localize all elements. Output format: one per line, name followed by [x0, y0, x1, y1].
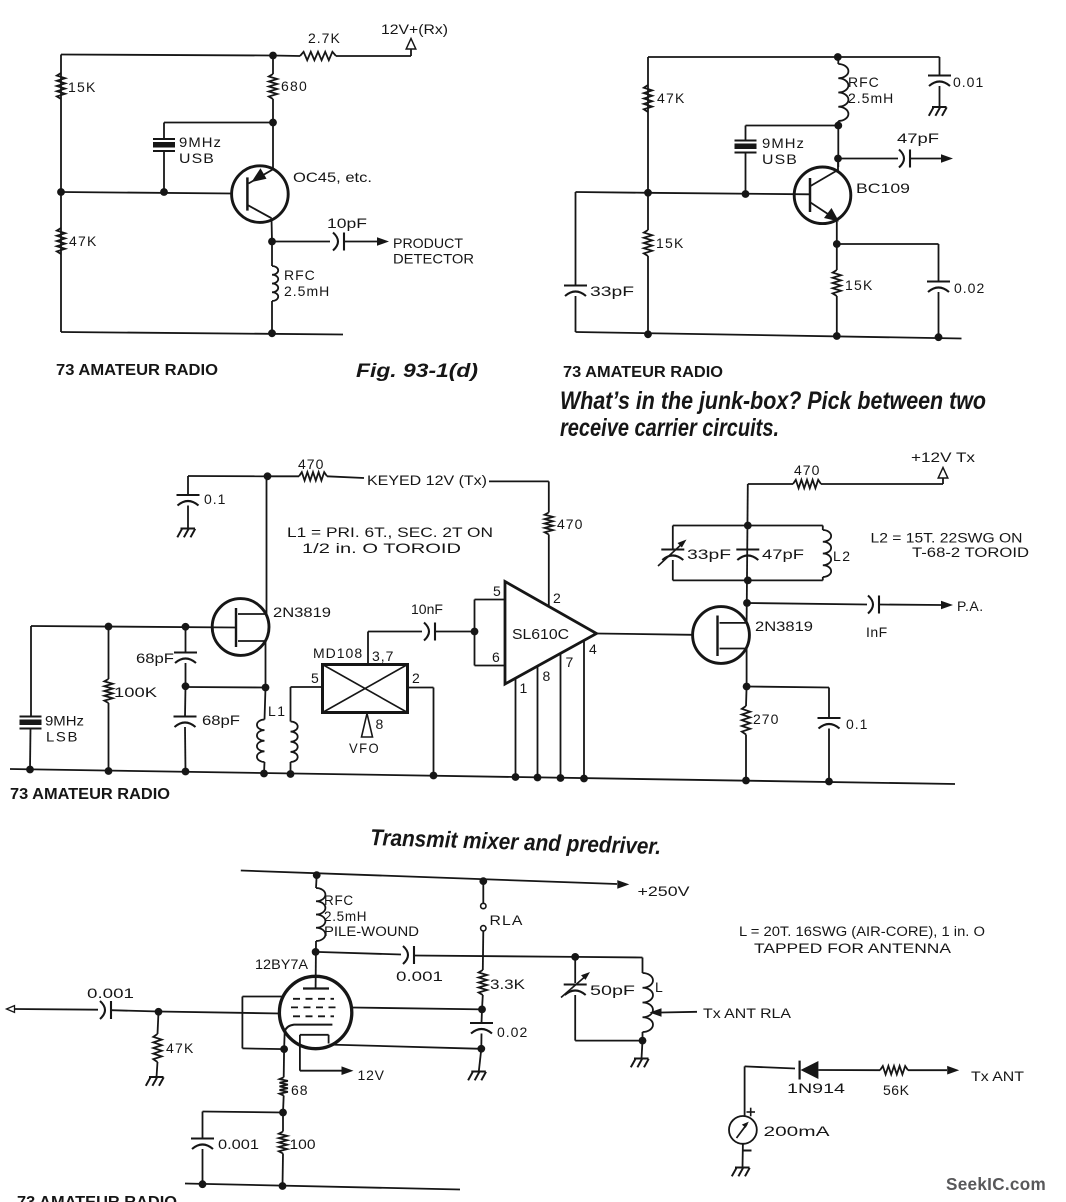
node cathode junction [280, 1045, 288, 1053]
node source junction 2 [743, 683, 751, 691]
svg-text:2: 2 [412, 670, 421, 686]
capacitor 0.001 (plate coupling) [403, 946, 408, 964]
wire [271, 242, 273, 267]
wire [315, 875, 318, 888]
input bracket pins 5-6 [474, 600, 476, 666]
wire tank top [673, 525, 823, 527]
wire [265, 641, 267, 688]
svg-text:PRODUCT: PRODUCT [393, 235, 463, 251]
node L1 primary bus junction [260, 770, 268, 778]
svg-text:RFC: RFC [324, 893, 354, 908]
svg-text:L2: L2 [833, 548, 852, 564]
resistor 15K (emitter) [833, 270, 841, 296]
wire [836, 244, 838, 270]
wire [367, 632, 369, 665]
wire [818, 1069, 880, 1071]
wire [747, 484, 748, 623]
wire pin8 [537, 666, 539, 777]
wire [745, 687, 748, 707]
wire [316, 952, 401, 955]
node gate junction 100K [105, 623, 113, 631]
node collector junction [834, 155, 842, 163]
power +12V Tx [938, 468, 948, 479]
wire pin2 MD108 [408, 687, 434, 689]
svg-text:73 AMATEUR RADIO: 73 AMATEUR RADIO [563, 364, 723, 381]
tube cathode [285, 1025, 333, 1032]
svg-text:0.01: 0.01 [953, 74, 984, 90]
wire [30, 626, 32, 717]
resistor 270 [742, 706, 750, 735]
svg-text:2N3819: 2N3819 [755, 618, 813, 634]
svg-text:47pF: 47pF [762, 546, 804, 562]
wire [414, 956, 575, 957]
capacitor 68pF lower [174, 715, 197, 717]
wire [111, 1010, 159, 1011]
node op-amp input junction [471, 628, 479, 636]
resistor 15K (bias) [644, 230, 652, 256]
wire [327, 476, 364, 478]
wire [164, 122, 273, 124]
arrow to product detector [377, 237, 389, 246]
svg-text:5: 5 [493, 583, 502, 599]
svg-text:200mA: 200mA [764, 1123, 831, 1139]
svg-text:MD108: MD108 [313, 645, 363, 661]
svg-text:100: 100 [290, 1136, 316, 1152]
wire [748, 483, 793, 485]
op-amp SL610C [505, 582, 597, 685]
wire [548, 535, 550, 607]
svg-text:6: 6 [492, 649, 501, 665]
node pin2 bus junction [430, 772, 438, 780]
svg-text:+12V Tx: +12V Tx [911, 449, 975, 465]
svg-text:T-68-2 TOROID: T-68-2 TOROID [912, 545, 1029, 560]
node crystal-base junction (right) [742, 190, 750, 198]
node 68-100 junction [279, 1109, 287, 1117]
wire [938, 292, 940, 337]
node plate junction [312, 948, 320, 956]
resistor 47K (input) [153, 1034, 161, 1062]
node RFC-crystal junction [834, 122, 842, 130]
wire [290, 687, 292, 722]
svg-text:RFC: RFC [284, 267, 316, 283]
node input junction [155, 1008, 163, 1016]
node keyed junction [264, 472, 272, 480]
svg-text:56K: 56K [883, 1082, 910, 1098]
inductor RFC 2.5mH [272, 266, 278, 301]
wire [648, 56, 940, 58]
svg-text:P.A.: P.A. [957, 598, 984, 614]
node emitter junction (right) [833, 240, 841, 248]
svg-text:Tx ANT: Tx ANT [971, 1068, 1025, 1084]
node base junction [644, 189, 652, 197]
wire [61, 55, 273, 56]
inductor L1 primary [257, 720, 265, 763]
svg-text:What’s in the junk-box? Pick b: What’s in the junk-box? Pick between two [560, 387, 986, 415]
node 0.001 bus junction [199, 1180, 207, 1188]
arrow Tx ANT RLA [650, 1008, 662, 1017]
svg-text:0.001: 0.001 [218, 1136, 259, 1152]
svg-text:USB: USB [179, 150, 215, 166]
svg-text:L1 = PRI. 6T., SEC. 2T ON: L1 = PRI. 6T., SEC. 2T ON [287, 524, 493, 540]
svg-text:7: 7 [566, 654, 575, 670]
capacitor 33pF variable [672, 526, 674, 550]
wire [746, 649, 748, 687]
svg-text:1/2 in. O TOROID: 1/2 in. O TOROID [302, 540, 461, 556]
svg-text:0.1: 0.1 [846, 716, 868, 732]
wire [282, 1113, 284, 1132]
svg-text:2.5mH: 2.5mH [324, 909, 367, 924]
svg-text:470: 470 [794, 462, 820, 478]
wire [163, 151, 165, 192]
node L1 secondary bus junction [287, 770, 295, 778]
wire [336, 55, 411, 57]
wire pin1 [515, 678, 517, 777]
wire [272, 56, 274, 75]
svg-text:100K: 100K [114, 684, 158, 700]
wire [31, 626, 236, 628]
wire [266, 476, 268, 614]
svg-text:15K: 15K [845, 277, 874, 293]
wire [489, 480, 549, 482]
svg-text:L = 20T. 16SWG (AIR-CORE), 1 i: L = 20T. 16SWG (AIR-CORE), 1 in. O [739, 924, 985, 939]
wire [291, 686, 323, 688]
transistor OC45 (PNP) [232, 166, 289, 223]
node tank top junction [744, 522, 752, 530]
node cathode-RC junction [477, 1045, 485, 1053]
pin 8 VFO triangle [362, 714, 373, 738]
svg-text:USB: USB [762, 151, 798, 167]
ground (47K) [157, 1062, 158, 1077]
wire [837, 243, 939, 245]
svg-text:1N914: 1N914 [787, 1081, 846, 1096]
capacitor 47pF [899, 150, 904, 168]
svg-text:470: 470 [557, 516, 583, 532]
svg-text:33pF: 33pF [687, 546, 731, 562]
inductor L2 [822, 526, 824, 531]
wire [821, 483, 943, 485]
resistor 3.3K [479, 970, 487, 995]
capacitor 50pF variable [564, 983, 587, 985]
svg-text:L2 = 15T. 22SWG ON: L2 = 15T. 22SWG ON [871, 531, 1023, 546]
wire [185, 627, 187, 653]
capacitor 0.1 with ground (keyed line) [187, 476, 189, 495]
resistor 680 [269, 74, 277, 99]
tube grid dashes [293, 998, 334, 1000]
wire [879, 604, 941, 607]
caption transmit mixer [370, 824, 662, 859]
svg-text:0.001: 0.001 [87, 985, 134, 1001]
meter 200mA [729, 1116, 757, 1144]
svg-text:50pF: 50pF [590, 982, 635, 998]
svg-text:VFO: VFO [349, 740, 380, 756]
wire [331, 1045, 482, 1049]
wire [828, 729, 830, 782]
arrow Tx ANT [947, 1066, 959, 1075]
node collector-supply junction [269, 52, 277, 60]
svg-text:10nF: 10nF [411, 601, 443, 617]
wire [282, 1096, 285, 1113]
wire [576, 332, 962, 339]
svg-text:BC109: BC109 [856, 180, 910, 196]
node pin8 bus [534, 774, 542, 782]
label minus [744, 1150, 752, 1152]
ground (0.02) [479, 1049, 482, 1072]
input arrow [7, 1006, 15, 1013]
svg-text:3.3K: 3.3K [490, 976, 526, 992]
inductor L1 secondary [291, 722, 298, 763]
wire [265, 688, 266, 720]
node ground junction 2 [833, 332, 841, 340]
node tank bottom junction [744, 577, 752, 585]
wire [344, 241, 377, 243]
svg-text:8: 8 [543, 668, 552, 684]
svg-text:TAPPED FOR ANTENNA: TAPPED FOR ANTENNA [754, 941, 951, 956]
svg-text:PILE-WOUND: PILE-WOUND [324, 924, 419, 939]
mixer MD108 [323, 665, 408, 713]
capacitor 0.01 with ground [939, 57, 941, 76]
svg-text:4: 4 [589, 641, 598, 657]
node L bus junction [639, 1037, 647, 1045]
svg-text:470: 470 [298, 456, 324, 472]
wire [29, 729, 32, 770]
svg-text:0.1: 0.1 [204, 491, 226, 507]
transistor BC109 (NPN) [794, 167, 851, 224]
svg-text:8: 8 [376, 716, 385, 732]
svg-text:3,7: 3,7 [372, 648, 394, 664]
resistor 47K [57, 228, 65, 254]
svg-text:47pF: 47pF [897, 130, 939, 146]
wire [60, 55, 62, 333]
svg-text:68pF: 68pF [136, 650, 174, 666]
svg-text:L1: L1 [268, 703, 287, 719]
wire [15, 1008, 99, 1011]
node RLA top junction [479, 877, 487, 885]
wire [746, 125, 839, 127]
arrow P.A. [941, 601, 953, 610]
svg-text:LSB: LSB [46, 729, 79, 745]
svg-text:73 AMATEUR RADIO: 73 AMATEUR RADIO [10, 786, 170, 803]
svg-text:L: L [655, 979, 663, 995]
svg-text:SL610C: SL610C [512, 627, 569, 643]
svg-text:DETECTOR: DETECTOR [393, 251, 474, 267]
capacitor 10nF [424, 623, 429, 641]
resistor 68 [280, 1077, 288, 1095]
arrow 12V [342, 1066, 354, 1075]
node 68pF junction [182, 682, 190, 690]
wire [908, 1069, 947, 1071]
inductor RFC 2.5mH pile-wound [316, 888, 325, 941]
capacitor 0.001 (cathode) [191, 1137, 214, 1139]
capacitor 0.02 (bottom ckt) [470, 1022, 493, 1024]
wire [837, 57, 839, 64]
crystal 9MHz USB (right ckt) [735, 139, 757, 141]
node source junction [262, 684, 270, 692]
svg-text:2: 2 [553, 590, 562, 606]
svg-text:9MHz: 9MHz [762, 135, 805, 151]
node pin1 bus [512, 773, 520, 781]
capacitor 0.001 (input) [100, 1001, 105, 1019]
node crystal-base junction [160, 188, 168, 196]
wire [272, 241, 330, 243]
svg-text:73 AMATEUR RADIO: 73 AMATEUR RADIO [17, 1194, 177, 1202]
node RFC top junction [313, 871, 321, 879]
node 270 bus junction [742, 777, 750, 785]
wire [837, 159, 839, 171]
svg-text:47K: 47K [166, 1040, 195, 1056]
tube heater box [300, 1034, 329, 1036]
wire [574, 995, 576, 1041]
inductor L (air-core) [642, 958, 644, 974]
resistor 100K [104, 679, 112, 703]
svg-text:Tx ANT RLA: Tx ANT RLA [703, 1005, 792, 1021]
wire [747, 687, 829, 688]
node gate junction 68pF [182, 623, 190, 631]
svg-text:Fig. 93-1(d): Fig. 93-1(d) [356, 360, 478, 382]
inductor RFC 2.5mH (right ckt) [838, 64, 848, 121]
wire [158, 1012, 159, 1034]
wire main bus [10, 769, 955, 784]
wire [742, 1144, 744, 1168]
wire [744, 1066, 746, 1116]
label plus [747, 1111, 756, 1113]
capacitor 33pF [564, 284, 587, 286]
ground (meter) [735, 1167, 750, 1169]
wire pin4 [583, 640, 585, 778]
wire [481, 1009, 484, 1023]
wire [836, 219, 838, 244]
node bottom junction [268, 329, 276, 337]
svg-text:9MHz: 9MHz [179, 134, 222, 150]
arrow carrier output [941, 154, 953, 163]
svg-text:SeekIC.com: SeekIC.com [946, 1174, 1046, 1194]
wire [747, 603, 867, 605]
capacitor 0.1 (source bypass) [818, 717, 841, 719]
resistor 2.7K [273, 55, 300, 58]
crystal 9MHz USB [153, 138, 175, 140]
wire [482, 931, 485, 970]
wire bottom bus [185, 1184, 460, 1190]
svg-text:RFC: RFC [848, 74, 880, 90]
svg-text:InF: InF [866, 624, 888, 640]
node supply junction [834, 53, 842, 61]
svg-text:270: 270 [753, 711, 779, 727]
wire cathode stem [283, 1032, 286, 1050]
wire [575, 296, 577, 332]
node pin4 bus [580, 775, 588, 783]
wire [597, 634, 693, 635]
svg-text:9MHz: 9MHz [45, 713, 84, 729]
capacitor 1nF [868, 596, 873, 614]
ground (L) [642, 1041, 643, 1059]
node ground junction 1 [644, 330, 652, 338]
wire [838, 158, 898, 160]
svg-text:OC45, etc.: OC45, etc. [293, 169, 372, 185]
svg-text:0.02: 0.02 [954, 280, 985, 296]
wire [648, 193, 810, 195]
svg-text:68: 68 [291, 1082, 309, 1098]
grid bracket [242, 996, 282, 998]
svg-text:2.7K: 2.7K [308, 30, 341, 46]
svg-text:47K: 47K [69, 233, 98, 249]
crystal 9MHz LSB [20, 715, 42, 717]
node 50pF junction [571, 953, 579, 961]
node left bus junction [57, 188, 65, 196]
wire tank bottom [673, 579, 823, 581]
node pin7 bus [557, 774, 565, 782]
wire [435, 631, 475, 633]
wire [203, 1112, 284, 1113]
relay contact RLA [482, 881, 484, 903]
wire [647, 57, 649, 193]
node 0.1 bus junction [825, 778, 833, 786]
svg-text:KEYED 12V (Tx): KEYED 12V (Tx) [367, 472, 487, 488]
svg-text:10pF: 10pF [327, 215, 367, 231]
node ground junction 3 [935, 333, 943, 341]
svg-text:2.5mH: 2.5mH [284, 283, 330, 299]
wire [745, 153, 747, 195]
wire [202, 1149, 204, 1184]
svg-text:receive carrier circuits.: receive carrier circuits. [560, 414, 779, 442]
capacitor 68pF upper [174, 651, 197, 653]
node drain PA junction [743, 599, 751, 607]
node plate-RC junction [478, 1006, 486, 1014]
wire [186, 686, 266, 689]
wire [352, 1008, 482, 1010]
node 100K bus junction [105, 767, 113, 775]
svg-text:680: 680 [281, 78, 308, 94]
wire [647, 193, 649, 230]
resistor 56K [880, 1066, 908, 1074]
svg-text:1: 1 [520, 680, 529, 696]
svg-text:2.5mH: 2.5mH [848, 90, 894, 106]
transistor 2N3819 second (JFET) [693, 607, 750, 664]
svg-text:0.001: 0.001 [396, 968, 443, 984]
resistor 47K (right ckt) [644, 85, 652, 112]
resistor 470 (+12V) [793, 480, 821, 488]
wire top rail [241, 871, 617, 885]
node 100 bus junction [279, 1182, 287, 1190]
svg-text:+250V: +250V [638, 883, 691, 899]
power 12V+(Rx) [406, 39, 416, 50]
wire [61, 332, 343, 335]
wire [188, 475, 268, 477]
wire [271, 218, 274, 241]
svg-text:0.02: 0.02 [497, 1024, 528, 1040]
wire [576, 191, 649, 194]
svg-text:12V: 12V [358, 1067, 385, 1083]
wire [574, 957, 576, 983]
resistor 100 [279, 1132, 287, 1154]
svg-text:RLA: RLA [490, 912, 524, 928]
wire [61, 192, 232, 194]
resistor 15K [57, 73, 65, 99]
wire [910, 158, 941, 160]
svg-text:12BY7A: 12BY7A [255, 956, 309, 972]
wire 12V heater [300, 1070, 342, 1072]
node emitter junction [268, 238, 276, 246]
svg-text:12V+(Rx): 12V+(Rx) [381, 22, 448, 37]
svg-text:2N3819: 2N3819 [273, 604, 331, 620]
svg-text:5: 5 [311, 670, 320, 686]
wire [108, 627, 110, 680]
svg-text:47K: 47K [657, 90, 686, 106]
node base-crystal junction [269, 119, 277, 127]
svg-text:68pF: 68pF [202, 712, 240, 728]
node crystal bus junction [26, 766, 34, 774]
capacitor 10pF [333, 233, 338, 251]
svg-text:33pF: 33pF [590, 283, 634, 299]
resistor 470 (keyed) [268, 475, 300, 477]
